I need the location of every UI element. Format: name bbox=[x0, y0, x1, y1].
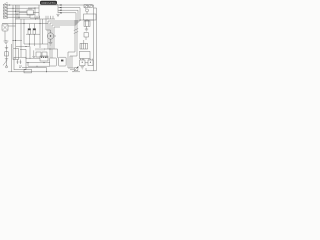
title badge bbox=[40, 1, 57, 5]
wire K1 top bbox=[28, 7, 39, 9]
junction dots bbox=[28, 62, 45, 67]
motor drop bbox=[50, 39, 52, 42]
pin comb bottom bbox=[36, 48, 44, 50]
motor M1 bbox=[47, 33, 53, 39]
junction dot h23.5 bbox=[24, 23, 25, 24]
heater R3 bbox=[80, 43, 88, 49]
coil C1 bbox=[28, 29, 31, 35]
coil feeds bbox=[29, 24, 34, 29]
bus return h20 right bbox=[80, 19, 94, 21]
staircase v46 bbox=[45, 19, 47, 30]
junction dots h20 bbox=[80, 20, 88, 21]
corner down x26 bbox=[25, 50, 27, 60]
wire K1 left bbox=[19, 11, 27, 13]
staircase v50 bbox=[49, 23, 51, 58]
small box M3 bbox=[84, 33, 88, 37]
connector J1 pin 5 bbox=[3, 16, 7, 18]
corner down x30 bbox=[29, 47, 31, 60]
corners to right bbox=[68, 68, 80, 72]
bus return h25 bbox=[52, 24, 76, 26]
lamp L2 bbox=[89, 5, 93, 8]
wire row4 bbox=[7, 13, 35, 15]
small part x75 bbox=[74, 66, 79, 71]
wire K1 bottom bbox=[30, 15, 39, 18]
ground under S1 bbox=[81, 67, 84, 69]
wire vertical v13 bbox=[12, 5, 14, 48]
staircase v48 bbox=[47, 21, 49, 49]
resistor pack R1 bbox=[36, 52, 41, 57]
wire h71.8 bottom bbox=[8, 71, 68, 73]
fan wire 4 bbox=[58, 12, 76, 14]
short h49.5 bbox=[20, 49, 26, 51]
coil drops bbox=[29, 34, 34, 46]
cable marker bbox=[74, 29, 78, 34]
bus return h27 bbox=[54, 26, 60, 28]
left horizontal h23.5 bbox=[2, 23, 48, 25]
bus corner right v78 bbox=[77, 10, 79, 23]
wire h62.6 bbox=[26, 62, 50, 64]
arrow on top bus bbox=[9, 4, 11, 5]
wire vertical v42 bbox=[42, 19, 44, 44]
wire vertical v24 mid bbox=[23, 19, 25, 44]
wire h40 bbox=[13, 40, 22, 42]
resistor pack R2 bbox=[42, 52, 47, 57]
coil C2 bbox=[33, 29, 36, 35]
mid bus v77 bbox=[76, 20, 78, 52]
wire vertical v40 bbox=[39, 19, 41, 48]
connector block CN2 bbox=[40, 56, 48, 61]
hatch under fan stub bbox=[56, 14, 59, 16]
motor side stub bbox=[54, 35, 56, 37]
sensor circle bbox=[86, 9, 89, 12]
button box P1 bbox=[50, 58, 57, 66]
right bus v96 bbox=[96, 8, 98, 71]
right module box bbox=[84, 14, 97, 20]
staircase v54 bbox=[53, 27, 55, 49]
coil shelf wire bbox=[26, 33, 40, 35]
bus return h21 bbox=[48, 20, 80, 22]
wire h67.5 bottom bbox=[22, 68, 47, 72]
left module box L10 bbox=[2, 24, 8, 31]
wire row2 bbox=[7, 7, 35, 9]
ground under motor bbox=[49, 43, 53, 45]
relay K1 box bbox=[27, 10, 33, 15]
wire vertical v21 mid bbox=[20, 19, 22, 57]
bus return h23 bbox=[50, 22, 78, 24]
wire R3 feed bbox=[83, 40, 85, 43]
motor feed bbox=[46, 30, 51, 33]
wire h49 bbox=[44, 49, 58, 58]
wire sensor drop bbox=[86, 8, 87, 14]
fan wire 1 arrow bbox=[59, 4, 62, 6]
hatch small x33 bbox=[32, 56, 35, 57]
junction dots bottom bus bbox=[26, 44, 30, 48]
junction dot v40 bbox=[39, 22, 42, 25]
speaker S1 bbox=[80, 59, 85, 66]
ground under M2 bbox=[85, 29, 88, 31]
wire from L10 right bbox=[8, 25, 16, 27]
battery stack B1 bbox=[3, 45, 8, 68]
wire corner h66 bbox=[28, 63, 50, 67]
bus corner right v80 bbox=[79, 8, 81, 21]
wire from L10 down bbox=[4, 31, 6, 41]
wire M2 pins bbox=[86, 20, 89, 21]
junction bbox=[46, 71, 47, 72]
motor dot bbox=[50, 35, 51, 36]
fuse holder F1 bbox=[13, 49, 19, 60]
right bus v93 bbox=[93, 5, 95, 71]
wire stub to edge bbox=[4, 2, 7, 4]
right mid verticals jog bbox=[68, 52, 77, 68]
wire vertical v39 bbox=[38, 5, 40, 18]
wire v33 bbox=[33, 50, 35, 56]
fan wire 2 bbox=[58, 7, 80, 9]
wire vertical v35 bbox=[34, 8, 36, 18]
harness fan stub bbox=[55, 3, 58, 13]
connector J1 body line bbox=[7, 4, 9, 19]
wire M2 drop bbox=[86, 26, 88, 29]
connector J1 pin 2 bbox=[3, 7, 7, 9]
bottom bus h44 bbox=[24, 43, 48, 45]
connector J1 pin 3 bbox=[3, 10, 7, 12]
button box P2 bbox=[59, 57, 67, 66]
wire v11.5 bbox=[11, 44, 13, 72]
fan wire 3 bbox=[58, 9, 78, 11]
speaker S2 bbox=[88, 59, 93, 66]
connector J1 pin 1 bbox=[3, 4, 7, 6]
resistor module M2 bbox=[84, 21, 90, 26]
junction dot comb bbox=[35, 19, 36, 20]
junction bbox=[50, 49, 51, 50]
bus corner right v76 bbox=[75, 13, 77, 25]
junction dots h40 bbox=[13, 39, 16, 42]
right bus top h bbox=[94, 7, 97, 9]
blank module box bbox=[79, 51, 90, 58]
mid bus v75 bbox=[74, 20, 76, 52]
wire K1 right bbox=[33, 11, 39, 13]
junction dot bbox=[35, 8, 36, 9]
wire row5 bbox=[7, 16, 30, 18]
wire top bus bbox=[7, 4, 94, 6]
bottom right bus bbox=[86, 68, 97, 71]
wire vertical v17 bbox=[16, 5, 18, 19]
bottom bus h46.5 bbox=[16, 46, 30, 48]
staircase v52 bbox=[51, 25, 53, 58]
connector J1 pin 4 bbox=[3, 13, 7, 15]
wire S1-S2 link bbox=[85, 62, 88, 64]
lamp L1 bbox=[84, 5, 88, 8]
small box bottom left bbox=[24, 69, 31, 73]
junction dots left grid bbox=[13, 8, 20, 18]
comb connector row bbox=[15, 16, 55, 19]
wire vertical v19 bbox=[18, 5, 20, 19]
wire h58.2 bbox=[26, 57, 40, 59]
svg-text:CIRCUITO: CIRCUITO bbox=[41, 1, 55, 5]
controller box bbox=[14, 57, 26, 70]
K1 top pins bbox=[29, 8, 31, 10]
wire M3 drop bbox=[85, 37, 87, 40]
wire row3 bbox=[7, 10, 27, 12]
wire vertical v15 bbox=[15, 5, 17, 49]
ground G1 bbox=[4, 40, 9, 43]
